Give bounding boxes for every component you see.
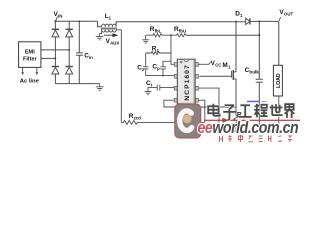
diode bridge top-left D (54, 21, 56, 29)
capacitor Cp (160, 61, 171, 75)
svg-text:CC: CC (215, 62, 221, 67)
wire FB vertical (171, 35, 174, 64)
node Cbulk junction (258, 20, 260, 22)
wire bottom rail right (219, 130, 279, 132)
watermark logo box (175, 104, 201, 138)
svg-text:bulk: bulk (249, 70, 259, 75)
resistor Rz (146, 52, 171, 55)
arrow Vaux (104, 34, 113, 36)
IC U1 notch (184, 60, 188, 62)
svg-text:eeworld.com.cn: eeworld.com.cn (198, 119, 299, 137)
diode bridge top-right D (68, 21, 70, 29)
wire aux left to ground (100, 30, 102, 37)
IC U1 pin-1 dot (180, 61, 182, 63)
node Vin dot (54, 20, 56, 22)
watermark blue dash (247, 101, 260, 103)
ground RfbL (142, 35, 149, 43)
svg-text:zcd: zcd (134, 116, 142, 121)
wire top rail to D1 (236, 21, 246, 23)
op-amp U1 IC NCP1607 body (174, 59, 198, 104)
node FB junction (170, 34, 172, 36)
watermark red line arrow (204, 120, 300, 121)
IC U1 pins left (FB, Control, Ct, CS) (174, 63, 177, 67)
node feedback sense junction (258, 34, 260, 36)
svg-text:AUX: AUX (110, 40, 119, 45)
inductor L1 primary (98, 21, 237, 27)
inductor L1 core (101, 28, 117, 29)
svg-text:in: in (89, 55, 93, 60)
wire ZCD pin5 (198, 100, 205, 122)
wire aux right down to Rzcd (116, 30, 121, 123)
svg-text:fbL: fbL (155, 29, 162, 34)
node bridge AC1 junction (55, 58, 57, 60)
IC U1 pins right (Vcc, DRV, GND, ZCD) (195, 63, 198, 67)
diode bridge bottom-right D (66, 66, 73, 68)
wire top rail left (54, 20, 97, 22)
wire Vout down to load (278, 21, 280, 65)
svg-text:p: p (157, 66, 160, 71)
watermark logo C swirl (180, 111, 192, 131)
capacitor Cz (143, 53, 149, 76)
resistor RfbU (175, 34, 187, 37)
svg-text:1: 1 (240, 13, 243, 18)
svg-text:NCP1607: NCP1607 (184, 64, 191, 100)
capacitor Ct (148, 85, 174, 92)
svg-text:Filter: Filter (23, 56, 37, 62)
inductor L1 aux winding (102, 30, 117, 32)
wire D1 to Vout corner (251, 20, 279, 22)
capacitor Cbulk (256, 21, 263, 131)
node bridge AC2 junction (68, 49, 70, 51)
wire CS pin4 (164, 100, 236, 107)
node drain junction (235, 21, 237, 23)
svg-text:1: 1 (228, 65, 231, 70)
wire Vout label tick (279, 17, 281, 21)
diode bridge bottom-left D (52, 66, 59, 68)
wire GND pin6 (198, 88, 219, 131)
watermark group (175, 101, 300, 142)
node Cin top junction (78, 21, 80, 23)
svg-text:fbU: fbU (179, 29, 186, 34)
capacitor Cin (76, 21, 83, 83)
svg-text:1: 1 (109, 16, 112, 21)
svg-text:LOAD: LOAD (276, 73, 282, 88)
diode D1 (246, 18, 250, 24)
wire EMI out bottom (41, 57, 56, 59)
Ac line arrows (23, 67, 37, 72)
wire Vcc pin8 (198, 62, 210, 64)
wire load bottom (278, 96, 280, 131)
transistor M1 MOSFET (199, 75, 231, 77)
resistor RfbL (146, 34, 176, 37)
wire comp to pin2 (146, 75, 175, 77)
IC U1 NCP1607 package body (177, 59, 195, 104)
resistor Rzcd (121, 120, 205, 124)
svg-text:EMI: EMI (25, 50, 35, 56)
ground Ct (145, 92, 152, 95)
svg-text:z: z (157, 48, 159, 53)
watermark chinese 电子工程世界 (208, 104, 294, 120)
wire M1 source down (235, 79, 237, 116)
watermark eeworld text (198, 119, 299, 137)
svg-text:OUT: OUT (284, 12, 293, 17)
EMI filter box (19, 42, 41, 68)
watermark small red slogan (220, 135, 293, 142)
EMI filter box (19, 42, 41, 68)
resistor Rs vertical (234, 116, 238, 132)
svg-text:t: t (151, 83, 153, 88)
svg-text:M: M (222, 62, 227, 69)
wire Vin label tick (56, 17, 58, 21)
load box (273, 65, 282, 96)
ground aux (96, 37, 104, 40)
ground main (96, 84, 104, 91)
load box rect (273, 65, 282, 96)
node Cp bottom junction (162, 75, 164, 77)
watermark logo dot (183, 115, 192, 124)
svg-text:IN: IN (58, 13, 62, 18)
svg-text:Ac line: Ac line (20, 79, 40, 85)
wire bottom rail left (55, 83, 99, 85)
IC U1 body shading (178, 60, 195, 103)
wire feedback sense (187, 34, 259, 36)
wire EMI out top (41, 49, 69, 51)
wire M1 drain (235, 22, 237, 72)
svg-text:z: z (142, 67, 144, 72)
